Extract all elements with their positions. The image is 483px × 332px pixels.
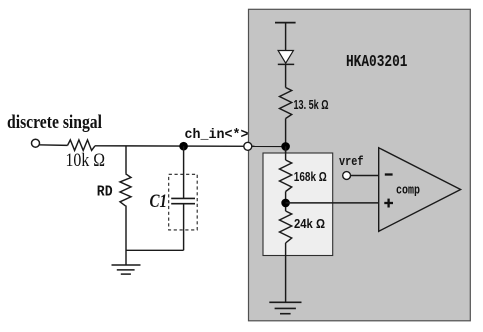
value label 168k (294, 170, 327, 184)
wire diode cathode to resistor 13.5k (285, 64, 287, 87)
wire RD branch vertical (top) (125, 146, 127, 173)
value label 24k (294, 217, 325, 231)
diode D1 (278, 51, 294, 65)
op-amp non-inverting input plus sign (384, 199, 393, 208)
ground (chip) (269, 302, 301, 313)
wire 24k to ground (285, 243, 287, 302)
label U1 HKA03201 (346, 52, 408, 71)
svg-text:168k Ω: 168k Ω (294, 170, 327, 184)
terminal vref (open circle) (343, 172, 351, 180)
wire power rail to diode anode (285, 23, 287, 51)
node divider tap junction dot (281, 199, 290, 208)
wire node to capacitor C1 top plate (183, 146, 185, 198)
resistor 13.5k ohm (280, 88, 292, 119)
label node ch_in<*> (185, 128, 249, 143)
main horizontal wire (input net, left segment) (37, 144, 68, 147)
label discrete singal (7, 112, 102, 133)
ground (left) (112, 265, 141, 274)
power rail bar (top supply) (275, 22, 296, 24)
svg-text:10k Ω: 10k Ω (66, 151, 106, 171)
wire resistor 13.5k to node ch_in (285, 119, 287, 154)
IC U1 HKA03201 package body (249, 9, 471, 321)
capacitor C1 plates (171, 198, 195, 203)
op-amp inverting input minus sign (385, 173, 393, 175)
resistor 24k ohm (280, 211, 292, 243)
label vref (339, 154, 364, 169)
svg-text:ch_in<*>: ch_in<*> (185, 128, 249, 143)
wire divider tap to op-amp non-inverting input (286, 202, 379, 204)
resistor 168k ohm (280, 160, 292, 192)
wire bottom connector (C1 branch to RD branch) (126, 249, 184, 251)
wire vref to op-amp inverting input (351, 175, 379, 177)
label comp (396, 183, 420, 198)
svg-text:13. 5k Ω: 13. 5k Ω (294, 97, 329, 112)
terminal input (open circle) (32, 139, 40, 147)
resistor RD (120, 174, 131, 206)
capacitor C1 dashed enclosure (169, 174, 198, 230)
value label 13.5k (294, 97, 329, 112)
terminal ch_in (open circle on package edge) (244, 142, 252, 150)
svg-text:C1: C1 (150, 191, 168, 212)
value label 10k (66, 151, 106, 171)
label C1 (150, 191, 168, 212)
label RD (97, 184, 113, 201)
wire node to resistor 168k (285, 146, 287, 160)
svg-text:discrete singal: discrete singal (7, 112, 102, 133)
svg-text:comp: comp (396, 183, 420, 198)
divider block box (263, 153, 333, 256)
svg-text:vref: vref (339, 154, 364, 169)
wire RD branch vertical (bottom, to ground) (125, 206, 127, 266)
node ch_in junction dot (179, 142, 188, 151)
svg-text:24k Ω: 24k Ω (294, 217, 325, 231)
wire capacitor C1 bottom plate down (183, 204, 185, 251)
svg-text:RD: RD (97, 184, 113, 201)
op-amp U2 comparator triangle (379, 148, 461, 232)
svg-text:HKA03201: HKA03201 (346, 52, 408, 71)
wire 168k to divider tap (285, 192, 287, 212)
main horizontal wire (input net, right segment) (95, 145, 286, 148)
resistor 10k ohm (horizontal) (68, 140, 96, 151)
node chip input junction dot (281, 142, 290, 151)
